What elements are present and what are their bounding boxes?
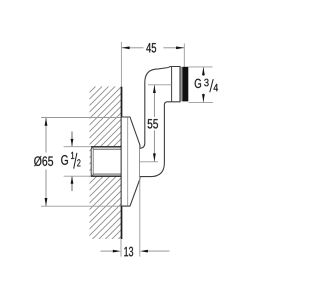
extension line (flange front face, for 13): [139, 178, 141, 257]
nipple bottom edge + left extension tick: [64, 175, 92, 177]
nipple left face with chamfer: [91, 147, 93, 176]
dimension tick Ø65 top (flange top tangent): [41, 117, 129, 119]
label G3/4: [195, 79, 218, 93]
nipple top edge + left extension tick: [64, 146, 92, 148]
chamfer vertical line: [92, 147, 94, 176]
dimension 55: [148, 85, 158, 162]
extension line (wall face, above wall): [120, 42, 122, 87]
dimension tick G3/4 top: [189, 66, 213, 68]
black gasket ring: [182, 67, 188, 102]
flange inner line: [127, 118, 129, 206]
dimension 13: [101, 247, 170, 257]
axis tick lower (inlet axis): [140, 161, 158, 163]
extension line (right end of union, for 45): [183, 44, 185, 67]
extension line (wall face, below wall): [120, 239, 122, 257]
dimension G1/2 arrows (thread height): [71, 132, 74, 192]
wall face line: [121, 87, 123, 239]
G1/2 thread nipple (in wall): [64, 146, 122, 176]
label Ø65 G 1/2: [34, 152, 80, 169]
riser left edge + upper outer curve: [140, 68, 168, 149]
dimension tick G3/4 bottom: [189, 101, 213, 103]
dimension G3/4 line + arrows: [202, 67, 205, 102]
thread minor diameter lines: [93, 148, 121, 150]
wall hatching: [90, 87, 122, 240]
dimension Ø65 vertical line + arrows: [45, 118, 48, 207]
gray washer band: [181, 67, 183, 102]
pipe body (S-bend riser): [140, 67, 172, 177]
connector head G3/4: [167, 67, 188, 102]
dimension tick Ø65 bottom (flange bottom tangent): [41, 205, 129, 207]
axis tick upper (outlet axis): [148, 84, 172, 86]
dimension 45: [121, 43, 184, 52]
flange (escutcheon): [122, 117, 140, 206]
riser right edge + lower outer curve: [140, 102, 167, 177]
